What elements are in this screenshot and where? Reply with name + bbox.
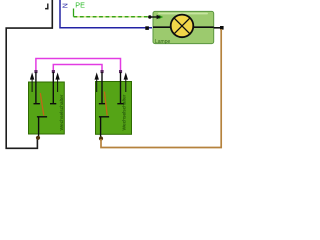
switch S2 common pin: [100, 117, 102, 138]
lamp symbol circle: [171, 15, 194, 38]
node dots traveler ends: [34, 70, 37, 73]
lamp internal line: [153, 26, 214, 28]
switch S1 box: [29, 82, 65, 134]
wire L feed (black): [6, 0, 52, 148]
switch S1 pin 1: [35, 72, 37, 104]
switch S2 terminal arrow left: [95, 72, 99, 79]
svg-text:Wechselschalter: Wechselschalter: [59, 94, 64, 130]
lamp box: [153, 11, 214, 43]
switch S2 box: [96, 82, 132, 135]
wire PE dashed (green/yellow): [74, 16, 150, 18]
switch S1 pin 2: [52, 72, 54, 104]
node on N wire at lamp input: [145, 26, 149, 30]
svg-text:Wechselschalter: Wechselschalter: [121, 94, 126, 130]
switch S1 terminal arrow left: [30, 72, 34, 79]
lamp symbol X: [174, 18, 190, 34]
wire traveler outer (magenta): [36, 59, 121, 73]
PE terminal arrow inside lamp: [150, 16, 157, 18]
node S1 common: [36, 136, 40, 140]
node at lamp right: [220, 26, 224, 30]
node S2 common: [99, 136, 103, 140]
switch S2 terminal arrow right: [124, 72, 128, 79]
wire lamp to S2 (brown): [101, 29, 221, 148]
label L: [47, 4, 48, 10]
switch S2 common bar: [99, 116, 109, 118]
switch S2 pin 2: [120, 72, 122, 104]
svg-text:Lampe: Lampe: [155, 39, 171, 45]
wire N feed (blue): [60, 0, 152, 28]
svg-text:N: N: [63, 3, 70, 8]
switch S1 terminal arrow right: [55, 72, 59, 79]
switch S1 common bar: [37, 116, 47, 118]
switch S2 lever (orange): [104, 92, 107, 116]
switch S2 pin 1: [101, 72, 103, 104]
switch S1 common pin: [38, 117, 40, 137]
svg-text:PE: PE: [75, 0, 85, 9]
wire traveler inner (magenta): [53, 65, 102, 73]
node PE at lamp: [148, 15, 151, 18]
wire PE vertical stub (green): [73, 9, 75, 17]
wire lamp output to node: [214, 27, 222, 29]
switch S1 lever (orange): [40, 93, 44, 116]
